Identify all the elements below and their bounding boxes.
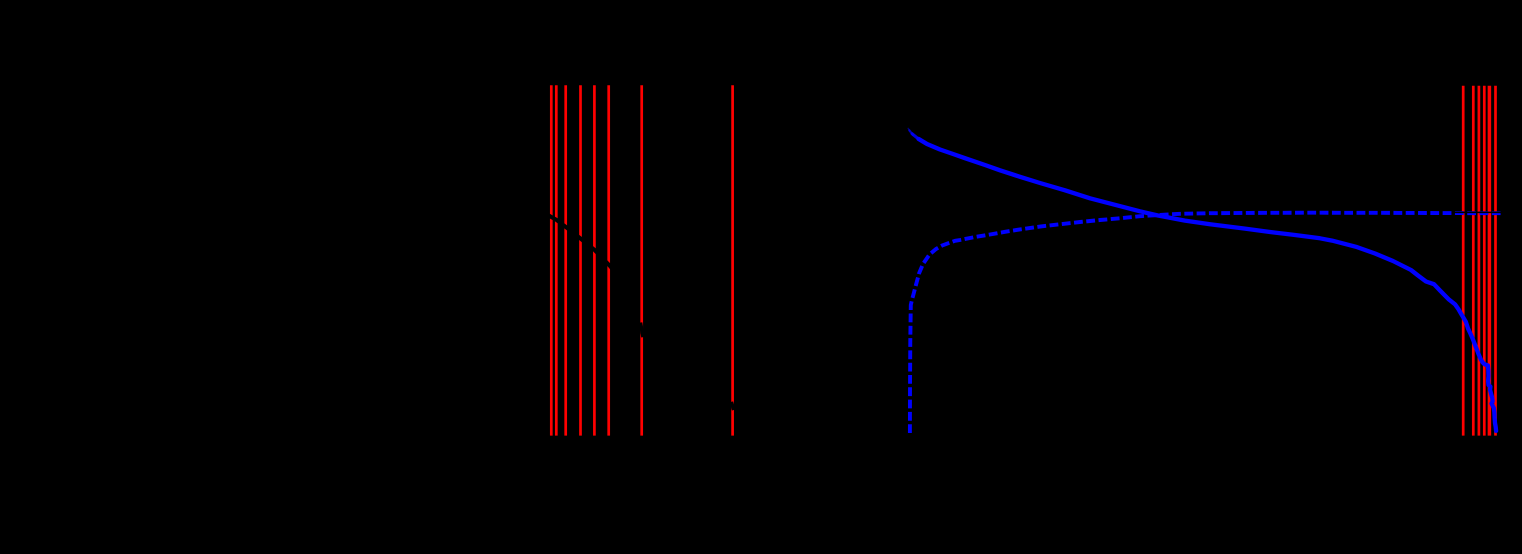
left panel: red spectral line L7 (x=641.7) xyxy=(640,85,643,435)
right panel: blue solid curve thin start 2 xyxy=(909,130,913,135)
left panel: red spectral line L4 (x=580.5) xyxy=(579,85,582,435)
right panel: red spectral line R5 (double, x=1489.4) xyxy=(1488,86,1492,436)
left panel: red spectral line L6 (x=608.7) xyxy=(607,85,610,435)
right panel: blue solid curve thin start 3 xyxy=(912,134,919,140)
left panel: black model curve crossing line cluster xyxy=(545,213,613,269)
left panel: red spectral line L2 (x=556.3) xyxy=(555,85,558,435)
right panel: red spectral line R4 (x=1484.3) xyxy=(1483,86,1486,436)
right panel: blue solid curve faint thin start xyxy=(908,128,910,131)
right panel: blue solid curve (electron temperature) xyxy=(919,139,1497,431)
right panel: red spectral line R3 (x=1478.9) xyxy=(1478,86,1481,436)
left panel: black absorption dip on line L8 xyxy=(731,402,733,410)
left panel: red spectral line L3 (x=565.7) xyxy=(564,85,567,435)
left panel: black absorption dip on line L7 xyxy=(641,323,644,338)
right panel: black horizontal model line over red cluster xyxy=(1452,211,1510,213)
right panel: red spectral line R1 (x=1463.2) xyxy=(1462,86,1465,436)
left panel: red spectral line L8 (x=732.6) xyxy=(731,85,734,435)
right panel: blue dashed curve (ion temperature) xyxy=(910,213,1502,433)
right panel: red spectral line R2 (x=1473.3) xyxy=(1472,86,1475,436)
right panel: red spectral line R6 (x=1495.5) xyxy=(1494,86,1497,436)
left panel: red spectral line L5 (x=594.4) xyxy=(593,85,596,435)
left panel: red spectral line L1 (x=551.3) xyxy=(550,85,553,435)
